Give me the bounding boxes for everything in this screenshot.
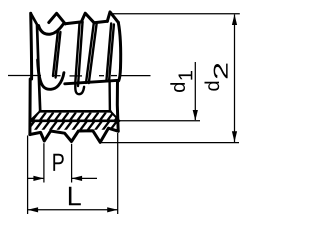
arrowheads bbox=[28, 14, 238, 212]
L extension line right bbox=[117, 133, 119, 214]
wire left outer edge upper bbox=[29, 13, 33, 79]
label d2 bbox=[205, 82, 220, 91]
arrow L right bbox=[107, 207, 118, 212]
centerline bbox=[8, 75, 151, 77]
flange middle line bbox=[30, 119, 119, 122]
wire left inner line bbox=[31, 14, 40, 111]
hatching lower band bbox=[27, 122, 124, 131]
arrow d2 down bbox=[232, 131, 237, 142]
node peak P3 bbox=[81, 13, 94, 23]
node peak P4 bbox=[107, 12, 118, 22]
wire crest P3-P4 bbox=[94, 21, 107, 22]
arrow L left bbox=[28, 207, 38, 212]
P extension line 1 bbox=[43, 143, 45, 182]
label d2 digit bbox=[214, 64, 228, 79]
thread groove B lines bbox=[75, 22, 79, 84]
hatching upper band bbox=[31, 113, 120, 122]
arrow d1 down bbox=[193, 110, 198, 121]
P dimension line right part bbox=[72, 177, 97, 179]
L extension line left bbox=[27, 136, 29, 215]
wire right inner line bbox=[108, 81, 111, 111]
dimension lines (thin) bbox=[28, 14, 240, 214]
groove B runout hook bbox=[75, 84, 84, 94]
flange right slope bbox=[110, 111, 117, 119]
d2 dimension line bbox=[234, 15, 236, 143]
d2 bottom extension line bbox=[100, 142, 239, 144]
flange top line bbox=[40, 110, 110, 113]
node peak P2 bbox=[49, 13, 65, 23]
d2 top extension line bbox=[113, 13, 240, 15]
d1 dimension line bbox=[194, 62, 196, 120]
P dimension line left part bbox=[28, 177, 44, 179]
arrow P right (points left) bbox=[72, 176, 83, 181]
wire crest P2-P3 bbox=[65, 22, 82, 24]
wire left outer edge lower bbox=[28, 79, 31, 135]
wire bottom crest line bbox=[65, 80, 119, 84]
P extension line 2 bbox=[71, 144, 73, 183]
thread groove D lines bbox=[106, 24, 111, 81]
wire right outer edge upper bbox=[118, 22, 120, 80]
arrow d2 up bbox=[232, 14, 237, 25]
d1 extension line bbox=[120, 120, 201, 122]
label L bbox=[69, 187, 81, 206]
label d1 bbox=[170, 83, 185, 92]
L dimension line bbox=[28, 209, 118, 211]
thread groove A lines bbox=[53, 31, 58, 76]
thread groove C lines bbox=[86, 23, 94, 83]
label P bbox=[53, 154, 63, 171]
arrow P left (points right) bbox=[33, 176, 44, 181]
top thread runout arc bbox=[39, 24, 64, 34]
flange left slope bbox=[30, 111, 40, 120]
bottom thread runout U arc bbox=[38, 60, 64, 89]
bottom serrated edge with cutting teeth bbox=[30, 128, 118, 142]
wire right outer edge lower bbox=[116, 81, 120, 132]
